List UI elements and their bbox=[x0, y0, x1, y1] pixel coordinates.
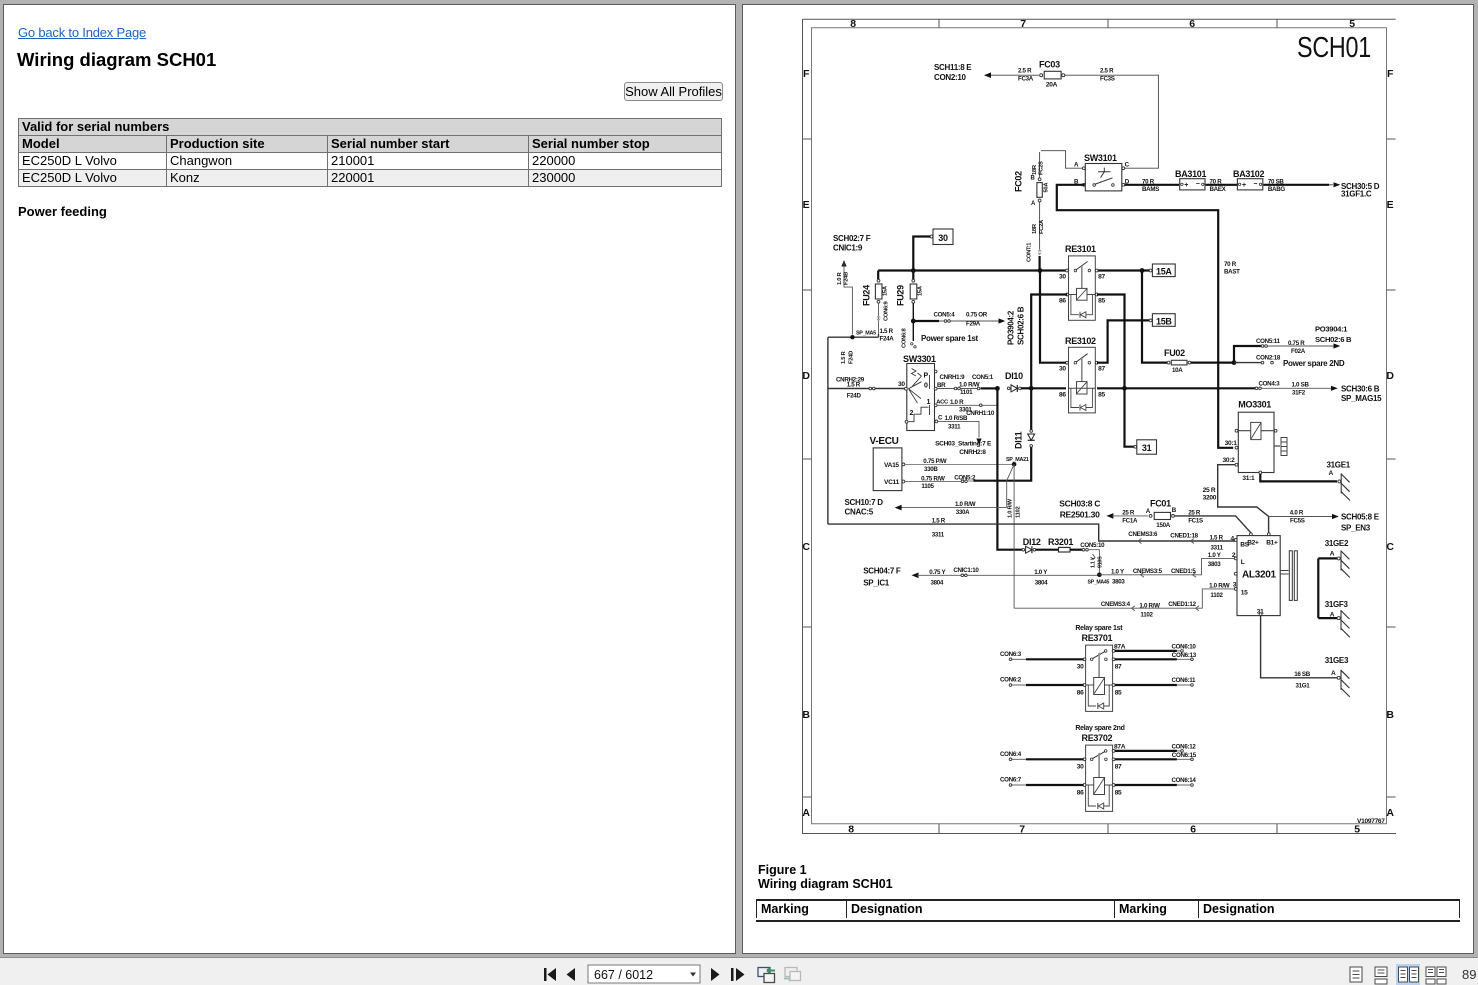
wire BAEX bbox=[1206, 179, 1237, 193]
svg-text:BS: BS bbox=[1240, 542, 1249, 549]
diode DI11 bbox=[997, 388, 1034, 480]
motor MO3301 (starter) bbox=[1223, 400, 1288, 483]
svg-text:CON5:4: CON5:4 bbox=[934, 312, 956, 319]
svg-text:1102: 1102 bbox=[1140, 612, 1153, 619]
node SCH30:6 B SP_MAG15 bbox=[1341, 385, 1382, 404]
svg-text:330B: 330B bbox=[924, 466, 938, 473]
relay RE3702 bbox=[1075, 725, 1125, 811]
svg-text:RE3701: RE3701 bbox=[1082, 633, 1113, 643]
svg-text:A: A bbox=[802, 807, 810, 819]
svg-text:FC02: FC02 bbox=[1014, 171, 1024, 192]
svg-text:F29A: F29A bbox=[966, 321, 981, 328]
svg-text:SP_IC1: SP_IC1 bbox=[863, 579, 890, 588]
svg-text:BAEX: BAEX bbox=[1210, 186, 1227, 193]
wire RE3701 87 CON6:13 bbox=[1115, 652, 1197, 661]
svg-text:B: B bbox=[1031, 176, 1036, 182]
svg-text:31GE1: 31GE1 bbox=[1327, 461, 1351, 470]
svg-text:6: 6 bbox=[1189, 18, 1195, 30]
svg-text:70 R: 70 R bbox=[1224, 261, 1237, 268]
svg-text:ACC: ACC bbox=[936, 400, 949, 406]
svg-text:8: 8 bbox=[848, 824, 854, 836]
svg-text:SCH04:7 F: SCH04:7 F bbox=[863, 567, 901, 576]
svg-text:2.5 R: 2.5 R bbox=[1018, 68, 1032, 75]
svg-text:30: 30 bbox=[1059, 274, 1066, 281]
svg-text:1102: 1102 bbox=[1210, 592, 1223, 599]
svg-text:15: 15 bbox=[1241, 590, 1248, 597]
svg-text:F24D: F24D bbox=[847, 393, 862, 400]
svg-text:CNEMS3:5: CNEMS3:5 bbox=[1133, 568, 1163, 575]
svg-text:7: 7 bbox=[1020, 18, 1026, 30]
svg-text:CON6:2: CON6:2 bbox=[1000, 677, 1022, 684]
svg-text:31GF3: 31GF3 bbox=[1325, 600, 1349, 609]
svg-text:+: + bbox=[1242, 182, 1246, 189]
wire RE3702 87A CON6:12 bbox=[1115, 744, 1196, 753]
relay RE3701 bbox=[1075, 625, 1125, 711]
svg-text:SP_EN3: SP_EN3 bbox=[1341, 524, 1371, 533]
svg-text:1.0 Y: 1.0 Y bbox=[1034, 569, 1048, 576]
svg-text:20A: 20A bbox=[1046, 82, 1058, 89]
svg-text:30: 30 bbox=[1059, 366, 1066, 373]
svg-text:CON6:7: CON6:7 bbox=[1000, 777, 1022, 784]
svg-text:B: B bbox=[802, 709, 810, 721]
svg-text:SCH03_Starting:7 E: SCH03_Starting:7 E bbox=[935, 441, 992, 448]
svg-text:SP_MAG15: SP_MAG15 bbox=[1341, 394, 1382, 403]
svg-text:BABG: BABG bbox=[1268, 186, 1286, 193]
svg-text:31:1: 31:1 bbox=[1242, 475, 1255, 482]
svg-text:Relay spare 2nd: Relay spare 2nd bbox=[1075, 725, 1124, 732]
svg-text:25 R: 25 R bbox=[1122, 510, 1135, 517]
svg-text:F24A: F24A bbox=[880, 336, 895, 343]
svg-text:DI11: DI11 bbox=[1014, 431, 1024, 449]
svg-text:BA3102: BA3102 bbox=[1233, 169, 1265, 179]
svg-text:SCH03:8 C: SCH03:8 C bbox=[1059, 499, 1100, 509]
svg-text:A: A bbox=[1386, 807, 1394, 819]
wire RE3702 87 CON6:15 bbox=[1115, 752, 1197, 761]
alternator AL3201 bbox=[1231, 533, 1298, 616]
svg-text:CON4:3: CON4:3 bbox=[1259, 381, 1281, 388]
fuse FU29 15A bbox=[896, 271, 924, 349]
svg-text:Power spare 1st: Power spare 1st bbox=[921, 334, 978, 343]
svg-text:PO3904:1: PO3904:1 bbox=[1315, 325, 1348, 334]
node SCH02:7 F CNIC1:9 bbox=[833, 234, 871, 253]
wire VA15 330B to SP_MA21 bbox=[905, 458, 1013, 473]
svg-text:RE3102: RE3102 bbox=[1065, 336, 1096, 346]
svg-text:CNRH2:8: CNRH2:8 bbox=[959, 449, 986, 456]
svg-text:MO3301: MO3301 bbox=[1238, 400, 1271, 410]
svg-text:CON6:15: CON6:15 bbox=[1172, 752, 1197, 759]
wire FC1A bbox=[1106, 510, 1148, 525]
svg-text:V1097767: V1097767 bbox=[1357, 818, 1385, 825]
svg-text:86: 86 bbox=[1059, 392, 1066, 399]
svg-text:31: 31 bbox=[1142, 443, 1152, 453]
svg-text:CON6:12: CON6:12 bbox=[1172, 744, 1197, 751]
svg-text:BR: BR bbox=[937, 382, 946, 389]
wire bus down to RE3102 30 bbox=[1040, 271, 1066, 363]
svg-text:AL3201: AL3201 bbox=[1242, 570, 1277, 581]
svg-text:3803: 3803 bbox=[1112, 579, 1125, 586]
svg-text:8: 8 bbox=[850, 18, 856, 30]
wire RE3101 85 down to ground bus bbox=[1097, 295, 1125, 388]
svg-text:A: A bbox=[1331, 670, 1336, 677]
svg-text:CON5:11: CON5:11 bbox=[1256, 338, 1281, 345]
svg-text:P: P bbox=[924, 373, 929, 380]
svg-text:4.0 R: 4.0 R bbox=[1290, 510, 1304, 517]
svg-text:RE3101: RE3101 bbox=[1065, 244, 1096, 254]
svg-text:330A: 330A bbox=[956, 509, 970, 516]
svg-text:Relay spare 1st: Relay spare 1st bbox=[1075, 625, 1123, 632]
svg-text:1.1 Y: 1.1 Y bbox=[1091, 556, 1097, 568]
ECU V-ECU bbox=[870, 436, 905, 491]
svg-text:1.0 R/SB: 1.0 R/SB bbox=[945, 415, 969, 422]
svg-text:85: 85 bbox=[1098, 298, 1105, 305]
fuse FC02 50A bbox=[1014, 171, 1050, 207]
wire FU02 to junction bbox=[1191, 360, 1236, 365]
svg-text:A: A bbox=[1329, 470, 1334, 477]
wire FC1S to AL3201 B2+ bbox=[1174, 510, 1251, 533]
wire main feed bus bbox=[878, 268, 1067, 273]
diode DI10 bbox=[995, 371, 1030, 392]
svg-text:SP_MA5: SP_MA5 bbox=[856, 331, 876, 337]
wire 1102 SP_MA21 down to CNEMS3:4 bbox=[1008, 464, 1022, 608]
svg-text:3200: 3200 bbox=[1203, 495, 1217, 502]
wire VC11 1105 CON5:2 bbox=[905, 475, 976, 491]
svg-text:CNEMS3:4: CNEMS3:4 bbox=[1101, 601, 1131, 608]
svg-text:C: C bbox=[802, 541, 810, 553]
wire RE3701 87A CON6:10 bbox=[1115, 644, 1196, 653]
svg-text:30:1: 30:1 bbox=[1225, 440, 1238, 447]
wire CON5:11 F02A to PO3904:1 bbox=[1234, 338, 1340, 363]
svg-text:Power spare 2ND: Power spare 2ND bbox=[1283, 359, 1345, 368]
svg-text:FC2A: FC2A bbox=[1039, 219, 1045, 234]
svg-text:CON6:10: CON6:10 bbox=[1172, 644, 1197, 651]
svg-text:SCH30:6 B: SCH30:6 B bbox=[1341, 385, 1380, 394]
svg-text:SCH02:6 B: SCH02:6 B bbox=[1315, 335, 1352, 344]
svg-text:E: E bbox=[1387, 199, 1394, 211]
node box 15A bbox=[1149, 264, 1175, 277]
svg-text:BAST: BAST bbox=[1224, 269, 1240, 276]
svg-text:FC1A: FC1A bbox=[1122, 518, 1138, 525]
node box 30 bbox=[930, 229, 953, 245]
svg-text:6: 6 bbox=[1190, 824, 1196, 836]
wire AL3201 31 to ground 31GE3 bbox=[1261, 616, 1337, 690]
wire BR 1101 to DI10 bbox=[937, 374, 996, 396]
svg-text:FC3S: FC3S bbox=[1100, 75, 1115, 82]
svg-text:150A: 150A bbox=[1156, 522, 1170, 529]
svg-text:FU29: FU29 bbox=[896, 285, 906, 306]
svg-text:A: A bbox=[1031, 201, 1036, 207]
svg-text:5: 5 bbox=[1349, 18, 1355, 30]
svg-text:FU24: FU24 bbox=[862, 285, 872, 306]
wire ground bus DI10 to CON4:3 bbox=[1029, 381, 1338, 397]
svg-text:85: 85 bbox=[1098, 392, 1105, 399]
svg-text:SCH05:8 E: SCH05:8 E bbox=[1341, 513, 1380, 522]
svg-text:FC1S: FC1S bbox=[1188, 518, 1203, 525]
svg-text:SCH02:6 B: SCH02:6 B bbox=[1017, 306, 1026, 345]
svg-text:DI10: DI10 bbox=[1005, 371, 1023, 381]
node box 31 bbox=[1125, 388, 1157, 454]
svg-text:CON5:10: CON5:10 bbox=[1080, 542, 1105, 549]
svg-text:A: A bbox=[1330, 551, 1335, 558]
svg-text:FC5S: FC5S bbox=[1290, 518, 1305, 525]
svg-text:1.0 SB: 1.0 SB bbox=[1292, 381, 1310, 388]
svg-text:16 SB: 16 SB bbox=[1294, 671, 1311, 678]
svg-text:25 R: 25 R bbox=[1188, 510, 1201, 517]
svg-text:B2+: B2+ bbox=[1247, 540, 1259, 547]
svg-text:A: A bbox=[1146, 508, 1151, 515]
node SCH05:8 E SP_EN3 bbox=[1341, 513, 1380, 533]
svg-text:5: 5 bbox=[1354, 824, 1360, 836]
svg-text:−: − bbox=[1196, 181, 1200, 188]
svg-text:1.0 R/W: 1.0 R/W bbox=[1008, 498, 1014, 518]
bottom toolbar bbox=[0, 957, 1478, 985]
svg-text:SP_MA45: SP_MA45 bbox=[1088, 580, 1110, 586]
svg-text:CON6:9: CON6:9 bbox=[884, 300, 890, 321]
svg-text:B: B bbox=[1386, 709, 1394, 721]
svg-text:89: 89 bbox=[1462, 967, 1476, 982]
fuse FU24 15A bbox=[862, 271, 895, 343]
svg-text:86: 86 bbox=[1077, 790, 1084, 797]
wire 15A junction down to FU02 bbox=[1142, 271, 1167, 363]
svg-text:VC11: VC11 bbox=[884, 479, 900, 486]
svg-text:30: 30 bbox=[898, 381, 905, 388]
svg-text:15A: 15A bbox=[917, 285, 923, 296]
wire RE3702 30 CON6:4 bbox=[1000, 751, 1084, 761]
wire FC3S to SW3101 C bbox=[1065, 68, 1158, 169]
svg-text:R3201: R3201 bbox=[1048, 537, 1073, 547]
svg-text:CON5:1: CON5:1 bbox=[972, 374, 994, 381]
wire CON2:18 Power spare 2ND bbox=[1234, 355, 1345, 369]
svg-text:F24B: F24B bbox=[844, 272, 850, 285]
relay RE3102 bbox=[1059, 336, 1105, 413]
wire BR/ACC riser to DI12 bbox=[997, 388, 1022, 549]
svg-text:SW3301: SW3301 bbox=[903, 354, 936, 364]
ground 31GE3 bbox=[1325, 656, 1350, 697]
svg-text:0.75 Y: 0.75 Y bbox=[929, 569, 946, 576]
wire 30-box to bus bbox=[913, 237, 930, 270]
wire FC2A with CONT:1 bbox=[1027, 202, 1046, 270]
svg-text:L: L bbox=[1241, 559, 1245, 566]
svg-text:V-ECU: V-ECU bbox=[870, 436, 899, 447]
svg-text:2: 2 bbox=[910, 410, 914, 417]
node SCH30:5 D 31GF1.C bbox=[1341, 182, 1380, 199]
svg-text:85: 85 bbox=[1115, 790, 1122, 797]
svg-text:CNAC:5: CNAC:5 bbox=[845, 508, 874, 517]
svg-text:3311: 3311 bbox=[932, 532, 945, 539]
svg-text:−: − bbox=[1253, 181, 1257, 188]
label 70R BAST bbox=[1224, 261, 1240, 276]
wire FC2S bbox=[1032, 152, 1045, 178]
svg-text:CNRH1:9: CNRH1:9 bbox=[940, 374, 966, 381]
node SP_MA45 bbox=[1088, 573, 1110, 586]
wire RE3701 86 CON6:2 bbox=[1000, 677, 1084, 687]
wire VC11/330A node bbox=[973, 481, 1006, 508]
svg-text:SCH01: SCH01 bbox=[1297, 32, 1371, 64]
wire 25R 3200 MO 30:2 to AL B1+ bbox=[1203, 465, 1269, 533]
svg-text:1.0 R/W: 1.0 R/W bbox=[959, 382, 980, 389]
svg-text:87A: 87A bbox=[1114, 743, 1126, 750]
svg-text:1.5 R: 1.5 R bbox=[1210, 535, 1224, 542]
svg-text:CON6:13: CON6:13 bbox=[1172, 652, 1197, 659]
ground 31GF3 bbox=[1318, 600, 1350, 637]
wire 1.5R 3311 to AL3201 BS bbox=[828, 518, 1235, 552]
svg-text:1.5 R: 1.5 R bbox=[847, 382, 861, 389]
svg-text:3311: 3311 bbox=[1211, 545, 1224, 552]
svg-text:1.0 R/W: 1.0 R/W bbox=[955, 501, 976, 508]
svg-text:3804: 3804 bbox=[931, 580, 944, 587]
svg-text:A: A bbox=[1074, 162, 1079, 169]
node SCH11:8 E CON2:10 bbox=[934, 63, 972, 82]
svg-text:1.5 R: 1.5 R bbox=[880, 328, 894, 335]
svg-text:31GE2: 31GE2 bbox=[1325, 539, 1349, 548]
svg-text:70 R: 70 R bbox=[1142, 179, 1155, 186]
svg-text:31F2: 31F2 bbox=[1292, 390, 1306, 397]
node PO3904:1 SCH02:6 B bbox=[1315, 325, 1352, 344]
switch SW3301 (ignition) bbox=[898, 354, 938, 431]
svg-text:SP_MA21: SP_MA21 bbox=[1006, 457, 1029, 463]
svg-text:F: F bbox=[803, 68, 810, 80]
svg-text:30: 30 bbox=[1077, 763, 1084, 770]
svg-text:87: 87 bbox=[1115, 763, 1122, 770]
svg-text:0.75 OR: 0.75 OR bbox=[966, 312, 988, 319]
svg-text:CNEMS3:6: CNEMS3:6 bbox=[1128, 531, 1158, 538]
relay RE3101 bbox=[1059, 244, 1105, 320]
svg-text:31GF1.C: 31GF1.C bbox=[1341, 190, 1372, 199]
wire RE3101 87 to 15A bbox=[1098, 268, 1149, 273]
wire F24D to SW3301 pin30 bbox=[828, 337, 905, 524]
wire 4.0R FC5S to SCH05:8 bbox=[1269, 510, 1339, 525]
svg-text:CNED1:12: CNED1:12 bbox=[1168, 601, 1196, 608]
svg-text:C: C bbox=[938, 415, 943, 422]
svg-text:CNED1:18: CNED1:18 bbox=[1170, 533, 1198, 540]
svg-text:1.0 Y: 1.0 Y bbox=[1111, 569, 1125, 576]
wire ground strap 31GE2-31GF3 bbox=[1317, 558, 1319, 618]
wire ACC 3301 bbox=[936, 399, 997, 417]
svg-text:1.0 R: 1.0 R bbox=[837, 272, 843, 285]
svg-text:BA3101: BA3101 bbox=[1175, 169, 1207, 179]
wire RE3702 86 CON6:7 bbox=[1000, 777, 1084, 787]
svg-text:CON6:4: CON6:4 bbox=[1000, 751, 1022, 758]
svg-text:31G1: 31G1 bbox=[1296, 683, 1311, 690]
node box 15B bbox=[1149, 314, 1175, 327]
svg-text:CNRH1:10: CNRH1:10 bbox=[966, 410, 995, 417]
svg-text:1102: 1102 bbox=[1016, 507, 1022, 518]
wire CON5:4 F29A to PO3904:2 bbox=[911, 312, 1005, 328]
svg-text:C: C bbox=[1125, 162, 1130, 169]
svg-text:CON6:14: CON6:14 bbox=[1172, 777, 1197, 784]
svg-text:18R: 18R bbox=[1032, 223, 1038, 234]
svg-text:910S: 910S bbox=[1098, 556, 1104, 568]
left panel bbox=[3, 4, 736, 954]
svg-text:667 / 6012: 667 / 6012 bbox=[594, 968, 653, 982]
svg-text:CNIC1:10: CNIC1:10 bbox=[953, 567, 979, 574]
svg-text:SCH10:7 D: SCH10:7 D bbox=[845, 498, 884, 507]
wire RE3701 85 CON6:11 bbox=[1115, 677, 1196, 687]
wire RE3702 85 CON6:14 bbox=[1115, 777, 1196, 787]
svg-text:86: 86 bbox=[1077, 690, 1084, 697]
drawing frame bbox=[803, 19, 1397, 833]
svg-text:PO3904:2: PO3904:2 bbox=[1007, 310, 1016, 345]
svg-text:18R: 18R bbox=[1032, 164, 1038, 175]
right panel bbox=[742, 4, 1474, 954]
wire 1102 CNEMS3:4 to AL3201 15 bbox=[1014, 583, 1235, 619]
wire RE3102 87 up to 15B bbox=[1097, 320, 1149, 362]
svg-text:0.75 R/W: 0.75 R/W bbox=[921, 476, 945, 483]
svg-text:B: B bbox=[1172, 507, 1177, 514]
svg-text:VA15: VA15 bbox=[884, 462, 899, 469]
wire SW3101 A feed bbox=[1041, 151, 1083, 169]
svg-text:F02A: F02A bbox=[1291, 348, 1306, 355]
svg-text:0: 0 bbox=[924, 383, 928, 390]
svg-text:1: 1 bbox=[927, 399, 931, 406]
svg-text:DI12: DI12 bbox=[1023, 537, 1041, 547]
svg-text:50A: 50A bbox=[1044, 182, 1050, 193]
fuse FC03 20A bbox=[1039, 60, 1065, 89]
svg-text:RE2501.30: RE2501.30 bbox=[1060, 510, 1100, 520]
svg-text:1.0 R/W: 1.0 R/W bbox=[1139, 603, 1160, 610]
frame row labels bbox=[802, 68, 1394, 819]
svg-text:15A: 15A bbox=[883, 285, 889, 296]
svg-text:SW3101: SW3101 bbox=[1084, 153, 1117, 163]
svg-text:CON2:18: CON2:18 bbox=[1256, 355, 1281, 362]
svg-text:15A: 15A bbox=[1156, 267, 1172, 277]
svg-text:30: 30 bbox=[938, 233, 948, 243]
wire MO 31:1 to ground 31GE1 bbox=[1260, 474, 1337, 481]
svg-text:7: 7 bbox=[1019, 824, 1025, 836]
svg-text:1.5 R: 1.5 R bbox=[932, 518, 946, 525]
fuse FU02 10A bbox=[1164, 348, 1191, 374]
svg-text:30: 30 bbox=[1077, 663, 1084, 670]
fuse FC01 150A bbox=[1146, 499, 1177, 530]
node SCH03:8 C RE2501.30 bbox=[1059, 499, 1100, 520]
svg-text:87: 87 bbox=[1098, 366, 1105, 373]
svg-text:87: 87 bbox=[1098, 274, 1105, 281]
svg-text:15B: 15B bbox=[1156, 316, 1172, 326]
svg-text:CON6:11: CON6:11 bbox=[1172, 677, 1197, 684]
svg-text:FC03: FC03 bbox=[1039, 60, 1060, 70]
svg-text:3804: 3804 bbox=[1035, 580, 1048, 587]
svg-text:1105: 1105 bbox=[921, 483, 934, 490]
svg-text:FC3A: FC3A bbox=[1018, 75, 1034, 82]
svg-text:SCH02:7 F: SCH02:7 F bbox=[833, 234, 871, 243]
svg-text:1.0 R: 1.0 R bbox=[950, 399, 964, 406]
wire battery bus B to BAST bbox=[1057, 185, 1233, 448]
wire FC3A to SCH11 bbox=[984, 68, 1039, 83]
node PO3904:2 SCH02:6 B (rotated) bbox=[1007, 306, 1026, 345]
svg-text:25 R: 25 R bbox=[1203, 487, 1216, 494]
svg-text:CNIC1:9: CNIC1:9 bbox=[833, 244, 863, 253]
svg-text:F: F bbox=[1387, 68, 1394, 80]
svg-text:FU02: FU02 bbox=[1164, 348, 1185, 358]
wire F24B bbox=[837, 260, 852, 335]
wire RE3701 30 CON6:3 bbox=[1000, 651, 1084, 661]
svg-text:87: 87 bbox=[1115, 663, 1122, 670]
svg-text:D: D bbox=[1386, 370, 1394, 382]
svg-text:E: E bbox=[803, 199, 810, 211]
svg-text:CON6:8: CON6:8 bbox=[902, 327, 908, 348]
svg-text:0.75 R: 0.75 R bbox=[1288, 340, 1305, 347]
svg-text:CON2:10: CON2:10 bbox=[934, 73, 967, 82]
svg-text:1.0 R/W: 1.0 R/W bbox=[1209, 583, 1230, 590]
svg-text:+: + bbox=[1184, 182, 1188, 189]
svg-text:70 SB: 70 SB bbox=[1268, 179, 1285, 186]
svg-text:CONT:1: CONT:1 bbox=[1027, 242, 1033, 262]
svg-text:SCH11:8 E: SCH11:8 E bbox=[934, 63, 972, 72]
svg-text:87A: 87A bbox=[1114, 643, 1126, 650]
wire BABG to SCH30:5 bbox=[1263, 179, 1340, 193]
svg-text:FC01: FC01 bbox=[1150, 499, 1171, 509]
svg-text:1101: 1101 bbox=[960, 389, 973, 396]
svg-text:BAMS: BAMS bbox=[1142, 186, 1159, 193]
